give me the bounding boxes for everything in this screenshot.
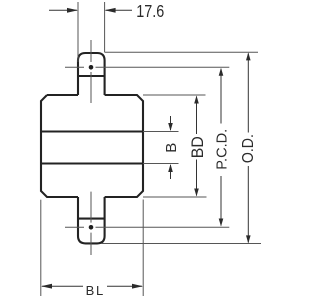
bottom vertical centerline [90, 192, 92, 255]
dimension BD line lower [196, 160, 198, 196]
dimension B leader upper [170, 116, 172, 130]
dimension O.D. line lower [247, 166, 249, 243]
top roller center dot [89, 65, 94, 70]
bottom tooth profile [78, 197, 105, 243]
dimension P.C.D. arrowhead lower (points down) [219, 219, 224, 227]
svg-text:BD: BD [189, 136, 207, 158]
dimension 17.6 arrowhead left [67, 8, 78, 13]
dimension BD arrowhead lower (points down) [194, 189, 199, 197]
dimension B arrowhead upper (points down) [168, 123, 173, 131]
top tooth profile [78, 53, 105, 95]
dimension O.D. line upper [247, 54, 249, 133]
bottom horizontal centerline / P.C.D. extension line [65, 226, 229, 228]
bore line upper [41, 131, 143, 133]
svg-text:P.C.D.: P.C.D. [213, 129, 230, 170]
svg-text:B: B [163, 143, 180, 153]
top horizontal centerline / P.C.D. extension line [65, 66, 229, 68]
svg-text:O.D.: O.D. [240, 134, 257, 163]
dimension P.C.D. line lower [220, 176, 222, 226]
dimension O.D. arrowhead upper (points up) [246, 52, 251, 60]
svg-text:BL: BL [86, 283, 104, 298]
17.6 extension line left [77, 2, 79, 62]
dimension BD line upper [196, 97, 198, 135]
dimension O.D. arrowhead lower (points down) [246, 235, 251, 243]
BL extension line right [142, 200, 144, 297]
sprocket body outline (hub with chamfered corners) [41, 95, 143, 197]
dimension P.C.D. line upper [220, 69, 222, 124]
dimension P.C.D. arrowhead upper (points up) [219, 68, 224, 76]
O.D. extension line bottom [101, 243, 261, 245]
BD extension line bottom [143, 196, 207, 198]
dimension 17.6 leader right [106, 9, 132, 11]
dimension BL arrowhead right (points right) [132, 284, 143, 289]
dimension BD arrowhead upper (points up) [194, 96, 199, 104]
bottom roller center dot [89, 225, 94, 230]
svg-text:17.6: 17.6 [136, 1, 164, 21]
B extension line upper [143, 131, 179, 133]
bore line lower [41, 163, 143, 165]
dimension BL arrowhead left (points left) [41, 284, 52, 289]
dimension BL line left segment [42, 285, 83, 287]
dimension 17.6 leader left [49, 9, 77, 11]
B extension line lower [143, 163, 179, 165]
dimension B leader lower [170, 165, 172, 179]
BL extension line left [40, 200, 42, 296]
O.D. extension line top [105, 51, 258, 53]
17.6 extension line right [104, 2, 106, 52]
BD extension line top [143, 94, 206, 96]
top tooth root line [78, 75, 105, 77]
dimension BL line right segment [107, 285, 142, 287]
dimension B arrowhead lower (points up) [168, 164, 173, 172]
bottom tooth root line [78, 218, 105, 220]
top vertical centerline [90, 40, 92, 103]
dimension 17.6 arrowhead right [105, 8, 116, 13]
